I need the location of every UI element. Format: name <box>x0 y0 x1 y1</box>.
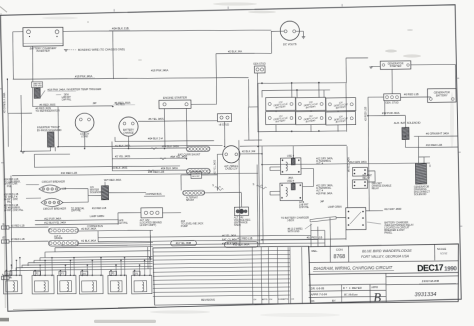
wire coach boost leads <box>181 174 191 176</box>
wire battery bank left feed <box>256 83 259 131</box>
wire #12 GRN J40A <box>262 163 430 166</box>
svg-text:WITH GND: WITH GND <box>288 231 300 233</box>
svg-text:TO BATTERY CHARGER: TO BATTERY CHARGER <box>281 217 309 220</box>
wire #2 BLK J4A to engine bay <box>216 52 271 55</box>
wire break symbols S on battery feeds <box>256 185 262 187</box>
wire lamp leads down <box>84 132 86 149</box>
svg-text:#10 RED L1B: #10 RED L1B <box>148 170 164 174</box>
wire gen stud to generator battery #6 RED L1B <box>400 96 430 99</box>
wire row #2 BLK J40S <box>112 170 186 171</box>
wire loop to breakers <box>34 153 70 156</box>
ground jack bottom left <box>1 276 9 279</box>
wire refrigerator feed #6 RED J60S <box>33 106 113 107</box>
svg-text:#6 GRN/WHT J#0A: #6 GRN/WHT J#0A <box>426 132 449 136</box>
svg-text:CH: CH <box>269 299 273 301</box>
svg-text:RELAY: RELAY <box>372 187 380 190</box>
svg-text:PUMP: PUMP <box>181 226 188 228</box>
riser #2 BLK J40A into revision area <box>97 231 99 242</box>
wire main battery feeds vertical <box>258 83 260 246</box>
svg-text:SCALE: SCALE <box>437 247 446 251</box>
wire shunt to alt24v <box>205 191 242 194</box>
svg-text:#12 GRN J#0A: #12 GRN J#0A <box>350 160 367 164</box>
title block column dividers <box>329 246 331 262</box>
svg-text:PANEL: PANEL <box>384 231 392 234</box>
svg-text:BATTERY: BATTERY <box>436 94 448 98</box>
svg-text:J#P: J#P <box>92 103 96 105</box>
alternator 24V box G4 <box>234 207 248 216</box>
wire alternator left lead <box>217 153 223 155</box>
wire alt12v west <box>118 212 141 214</box>
wire meter riser <box>270 31 272 53</box>
svg-text:#0# BLK J#0A: #0# BLK J#0A <box>161 166 178 170</box>
title block row dividers <box>309 261 459 263</box>
svg-text:J. MEYER: J. MEYER <box>349 286 362 290</box>
svg-text:CHARGE: CHARGE <box>123 131 134 134</box>
battery charge lamp L2 <box>119 117 138 136</box>
svg-text:1990 WLWB: 1990 WLWB <box>422 279 439 283</box>
wire bundle row 11 <box>10 269 153 271</box>
svg-text:USE #: USE # <box>287 180 295 183</box>
svg-text:#18 PNK J#6A: #18 PNK J#6A <box>316 192 332 195</box>
svg-text:#2 BLK J4#: #2 BLK J4# <box>242 149 256 153</box>
relay module F4 <box>79 275 103 294</box>
battery current shunt R-SH1 <box>186 146 210 151</box>
svg-text:#10 RED L1B: #10 RED L1B <box>92 208 107 210</box>
wire riser at x=112.8 <box>112 31 115 79</box>
wire relay K4 right lead <box>302 185 313 187</box>
dc volts meter M1 <box>280 21 299 40</box>
wire bundle row 10 <box>16 266 153 268</box>
svg-text:#12 BLK/YEL J#6A: #12 BLK/YEL J#6A <box>44 221 66 225</box>
bottom paper edge <box>13 307 157 309</box>
wire label box #10 YEL J30B <box>171 240 197 246</box>
wire bundle row 9 <box>22 264 153 266</box>
svg-text:#12 PUR J#6A: #12 PUR J#6A <box>44 217 61 221</box>
wire #2 YEL J40S drop to shunt <box>216 154 218 190</box>
svg-text:FORT VALLEY, GEORGIA USA: FORT VALLEY, GEORGIA USA <box>361 254 410 259</box>
svg-text:RC Hellane: RC Hellane <box>343 292 359 296</box>
svg-text:#0# BLK J#0A: #0# BLK J#0A <box>162 144 179 148</box>
wire #6 GRN/WHT J40A <box>404 140 406 148</box>
title block frame <box>309 244 459 304</box>
terminal strip 2 TB5 <box>48 240 78 246</box>
svg-text:J-BOX: J-BOX <box>287 219 295 222</box>
svg-text:SOLENOID: SOLENOID <box>414 193 427 196</box>
svg-text:#2 RED L1B: #2 RED L1B <box>11 238 25 241</box>
svg-text:DR. 6-8-89: DR. 6-8-89 <box>311 286 325 290</box>
generator battery BT7 <box>427 89 456 103</box>
wire gen stud down to battery bus <box>256 73 258 83</box>
svg-text:L# FRT, CHP, PNL.: L# FRT, CHP, PNL. <box>4 210 24 212</box>
cable to battery charger <box>310 216 336 222</box>
coach boost box <box>191 172 202 179</box>
svg-text:STARTER: STARTER <box>390 64 402 68</box>
wire engine starter to riser <box>191 103 216 105</box>
terminal strip alt grade TB4 <box>48 228 78 234</box>
wire #14 PUR J40A <box>368 114 405 117</box>
svg-text:TO REFRIGERATOR: TO REFRIGERATOR <box>35 109 59 113</box>
wire battery top bus <box>257 82 346 84</box>
svg-text:CHP PNL: CHP PNL <box>62 99 72 101</box>
coach load lamp L1 <box>75 113 94 132</box>
label W/T solenoid feed <box>109 191 146 194</box>
wire row ends west <box>111 142 113 171</box>
svg-text:LAMP GRBN: LAMP GRBN <box>90 215 105 218</box>
svg-text:#12 GRY J#0R: #12 GRY J#0R <box>384 207 401 211</box>
wire #6 RED J40A vertical <box>346 146 349 207</box>
aux battery solenoid K7 coil <box>404 116 406 128</box>
wire row #2 YEL J40S <box>112 158 186 159</box>
svg-text:#0# BLK 2-#: #0# BLK 2-# <box>148 136 163 140</box>
wire jack L8 to strip <box>9 240 48 243</box>
svg-text:CIRCUIT BREAKER: CIRCUIT BREAKER <box>42 179 65 183</box>
svg-text:CK: CK <box>311 299 315 303</box>
svg-text:#10 BLK J#0A: #10 BLK J#0A <box>233 242 250 246</box>
svg-text:+8 STUD: +8 STUD <box>218 123 229 127</box>
wire riser to generator circuit <box>345 58 347 83</box>
wire bundle row 6 <box>40 256 153 257</box>
wire relay K3 right lead <box>301 167 313 169</box>
wire #12 RED L1B risers <box>310 223 312 246</box>
generator starter G1 <box>380 61 411 70</box>
wire #10 RED L1B bottom <box>262 239 346 240</box>
svg-text:#6# YEL J#0S: #6# YEL J#0S <box>170 155 187 159</box>
svg-text:#2 YEL J#0S: #2 YEL J#0S <box>115 154 131 158</box>
gen set charge enable relay K6 <box>352 180 367 189</box>
relay module F3 <box>57 275 76 294</box>
svg-text:#18 PNK J#6A: #18 PNK J#6A <box>75 74 93 78</box>
svg-text:R: R <box>343 286 345 290</box>
svg-text:REVISIONS: REVISIONS <box>201 298 215 302</box>
wire relay K4 left leads <box>270 190 280 192</box>
svg-text:CASE) 12V: CASE) 12V <box>225 167 238 170</box>
svg-text:#10 RED L1B: #10 RED L1B <box>426 143 442 147</box>
wire #12 BLK/YEL J46A <box>35 224 118 225</box>
wire relay K3 left leads <box>270 166 280 168</box>
svg-text:DEC17: DEC17 <box>417 262 444 273</box>
gen stud terminal block TB2 <box>384 94 401 101</box>
wire #18 PNK J46A bus <box>13 76 249 80</box>
wire bundle row 5 <box>45 251 151 252</box>
revision table <box>153 246 311 305</box>
wire #2 RED L1B main vertical <box>368 97 370 211</box>
svg-text:#2 BLK J4A: #2 BLK J4A <box>228 49 242 53</box>
generator cranking disconnect solenoid K8 <box>415 163 426 184</box>
wire from charger left terminal <box>13 31 23 33</box>
faint scan specks <box>385 50 397 53</box>
alternator 12V box G3 <box>141 208 163 218</box>
wire alt12v east <box>163 212 181 214</box>
zone tick marks left border <box>0 89 5 237</box>
svg-text:LAMP GRBN: LAMP GRBN <box>328 206 342 209</box>
wire alternator feeds from bank <box>247 107 249 140</box>
svg-text:BAT. (2) J#0A: BAT. (2) J#0A <box>222 238 237 241</box>
bottom-left dark page corner <box>0 318 9 322</box>
svg-text:#6 RED J60A: #6 RED J60A <box>114 101 130 105</box>
svg-text:NONE: NONE <box>440 252 448 256</box>
relay module F6 <box>131 275 152 294</box>
svg-text:COPPER BUS: COPPER BUS <box>146 193 162 196</box>
wire generator starter to generator battery <box>411 63 456 66</box>
ground bonding wire symbol <box>64 48 68 50</box>
wire relays to main vertical <box>368 170 375 172</box>
P.O. bat relay K5 <box>352 167 367 176</box>
svg-text:#2 RED L1B: #2 RED L1B <box>364 107 368 122</box>
wire #12 PUR J46A <box>35 220 118 221</box>
svg-text:#10 YEL J30B: #10 YEL J30B <box>176 242 192 245</box>
wire bundle row 1 #4 YEL J40A <box>98 235 311 238</box>
zone tick marks right border <box>457 78 463 226</box>
battery B5 12V deep cycle <box>296 111 326 124</box>
svg-text:BY: BY <box>332 299 336 303</box>
svg-text:ENGINE STARTER: ENGINE STARTER <box>163 95 187 99</box>
svg-text:CIRCUIT BREAKER: CIRCUIT BREAKER <box>43 206 66 210</box>
wire break symbols on yel j40s pair <box>215 187 221 189</box>
inverter temp trigger S1 <box>34 88 40 98</box>
svg-text:8768: 8768 <box>333 254 345 260</box>
lab frt chp pnl box <box>31 82 42 88</box>
svg-text:#2 BLK J#0A: #2 BLK J#0A <box>81 227 96 231</box>
svg-text:BOOST: BOOST <box>192 176 200 178</box>
svg-text:LEV PNL: LEV PNL <box>118 223 128 225</box>
wire battery bank right feed <box>345 83 348 131</box>
svg-text:PNL.: PNL. <box>7 186 13 188</box>
alternator shunt R-SH3 <box>183 190 205 195</box>
svg-text:#6 RED L1B: #6 RED L1B <box>404 92 419 96</box>
relay module F2 <box>32 275 54 294</box>
svg-text:#2 GRN/BLK J#6A: #2 GRN/BLK J#6A <box>3 92 6 113</box>
battery B1 12V deep cycle <box>266 97 296 110</box>
wire bundle row 3 #12 BLK J40A <box>62 243 325 246</box>
svg-text:#6 RED J60S: #6 RED J60S <box>39 102 55 106</box>
svg-text:BLUE BIRD WANDERLODGE: BLUE BIRD WANDERLODGE <box>362 249 412 254</box>
svg-text:SOLENOID: SOLENOID <box>90 192 102 194</box>
wire row #1 BLK J40A <box>112 148 186 149</box>
wire bundle row 4 <box>55 247 153 248</box>
relay module F1 <box>3 275 22 294</box>
battery B2 12V deep cycle <box>296 97 326 110</box>
wire bundle row 2 BAT (2) J40A <box>98 239 318 242</box>
battery charger/inverter U1 <box>23 27 63 46</box>
wire #2 BLK J40A from strip1 <box>78 230 152 231</box>
svg-text:#2 RED L1B: #2 RED L1B <box>11 224 25 227</box>
circuit breaker CB2 <box>41 198 63 206</box>
wire #10 RED L1B long bus <box>58 145 223 148</box>
battery charger relay K9 <box>346 208 366 230</box>
svg-text:J#P: J#P <box>320 201 324 203</box>
wire meter right lead to ground <box>296 30 304 32</box>
wire battery second bus <box>262 90 330 91</box>
wire relay K3 top feed <box>292 146 294 158</box>
battery B6 12V deep cycle <box>326 112 356 125</box>
wire meter left lead <box>271 30 284 32</box>
ground at generator starter <box>371 65 380 67</box>
svg-text:REL.: REL. <box>311 249 318 253</box>
svg-text:GEN STUD: GEN STUD <box>253 63 266 66</box>
wire #10 RED L1B right <box>406 146 458 149</box>
bundle left risers <box>11 176 12 269</box>
wire grn/wht down to cranking solenoid <box>417 136 419 157</box>
zone tick marks top border <box>114 4 342 12</box>
svg-text:#10 RED L1B: #10 RED L1B <box>61 171 77 175</box>
wire gen stud west to main vertical <box>368 96 384 98</box>
svg-text:INVERTER: INVERTER <box>36 49 49 53</box>
svg-text:APPD: APPD <box>283 298 289 301</box>
battery B4 12V deep cycle <box>266 111 296 124</box>
bundle right risers <box>239 140 240 246</box>
wire battery bottom bus <box>257 131 346 132</box>
svg-text:#2# BLK J1B: #2# BLK J1B <box>112 26 129 30</box>
wire battery column feeds <box>261 90 263 97</box>
wire label box #10 BLK J40A <box>224 242 258 248</box>
ground at bypass solenoid <box>23 150 50 152</box>
svg-text:W/T RED J#0A: W/T RED J#0A <box>104 178 122 182</box>
wire left riser #2 GRN/BLK J46A <box>6 79 8 113</box>
wire bundle row 8 <box>28 261 153 263</box>
svg-text:#18 PNK J#6A, INVERTER TEMP TR: #18 PNK J#6A, INVERTER TEMP TRIGGER <box>47 87 101 92</box>
svg-text:#10 RED L1B: #10 RED L1B <box>307 235 323 239</box>
wire from charger bottom to lab frt panel <box>31 46 33 82</box>
bottom smudge strip <box>94 320 156 323</box>
+8 stud block TB3 <box>217 114 231 122</box>
circuit breaker CB1 <box>39 185 61 193</box>
svg-text:DC VOLTS: DC VOLTS <box>283 42 297 46</box>
svg-text:L# FRT CMPT): L# FRT CMPT) <box>140 224 157 227</box>
svg-text:SHUNT: SHUNT <box>186 200 195 202</box>
svg-text:BY-PASS SOLENOID: BY-PASS SOLENOID <box>37 128 62 132</box>
svg-text:AUX. BAT. SOLENOID: AUX. BAT. SOLENOID <box>394 121 421 125</box>
svg-text:CH: CH <box>291 299 295 301</box>
wire bundle row 7 <box>34 259 153 261</box>
wire #2 BLK J40A from strip2 <box>78 241 152 244</box>
svg-text:#1# PUR J40A: #1# PUR J40A <box>382 111 400 115</box>
paper edge shadows <box>0 7 7 13</box>
svg-text:APPR 7-6-84: APPR 7-6-84 <box>310 292 328 296</box>
wire breakers to winter solenoid <box>61 187 88 189</box>
svg-text:CHP PNL: CHP PNL <box>299 207 310 209</box>
alternator small case G2 <box>223 146 240 163</box>
wire starter terminals down <box>163 108 166 147</box>
wire top bus #24 BLK J1B <box>63 29 271 33</box>
svg-text:GRADE: GRADE <box>54 237 63 240</box>
svg-text:PNL.: PNL. <box>7 202 13 204</box>
relay module F5 <box>108 275 127 294</box>
wire aux battery branch <box>384 100 386 115</box>
svg-text:#2 BLK J#0A: #2 BLK J#0A <box>81 239 96 243</box>
wire generator starter bottom feed <box>391 69 393 94</box>
svg-text:APPR: APPR <box>371 286 378 289</box>
svg-text:#6 YEL J#0S: #6 YEL J#0S <box>148 117 164 121</box>
svg-text:CHP PNL: CHP PNL <box>71 210 82 212</box>
svg-text:3931334: 3931334 <box>415 292 437 298</box>
svg-text:B: B <box>373 291 381 305</box>
svg-text:GEN. STUD: GEN. STUD <box>385 101 399 104</box>
svg-text:#2 YEL J#0S: #2 YEL J#0S <box>214 160 217 175</box>
wire #10 RED L1B left <box>12 173 258 177</box>
svg-text:CON: CON <box>336 248 343 252</box>
svg-text:DIAGRAM, WIRING, CHARGING CIRC: DIAGRAM, WIRING, CHARGING CIRCUIT <box>313 265 392 271</box>
wire alternator right lead #2 BLK J4# <box>240 153 262 155</box>
wire jack L7 to strip <box>9 226 48 229</box>
ground at dc volts meter <box>302 36 306 38</box>
svg-text:CH: CH <box>253 299 257 301</box>
svg-text:#6 RED J#0A: #6 RED J#0A <box>348 157 351 172</box>
battery B3 12V deep cycle <box>326 98 356 111</box>
svg-text:BONDING WIRE (TO CHASSIS GND): BONDING WIRE (TO CHASSIS GND) <box>78 47 125 52</box>
svg-text:APPD: APPD <box>262 298 268 301</box>
svg-text:1990: 1990 <box>444 265 457 272</box>
svg-text:CHP PNL: CHP PNL <box>33 85 43 87</box>
svg-text:#18 PNK J#6A: #18 PNK J#6A <box>151 68 169 72</box>
second shunt strip R-SH2 <box>186 168 210 174</box>
junction dots right side <box>405 135 407 137</box>
svg-text:#4 YEL J#0A: #4 YEL J#0A <box>222 234 237 237</box>
